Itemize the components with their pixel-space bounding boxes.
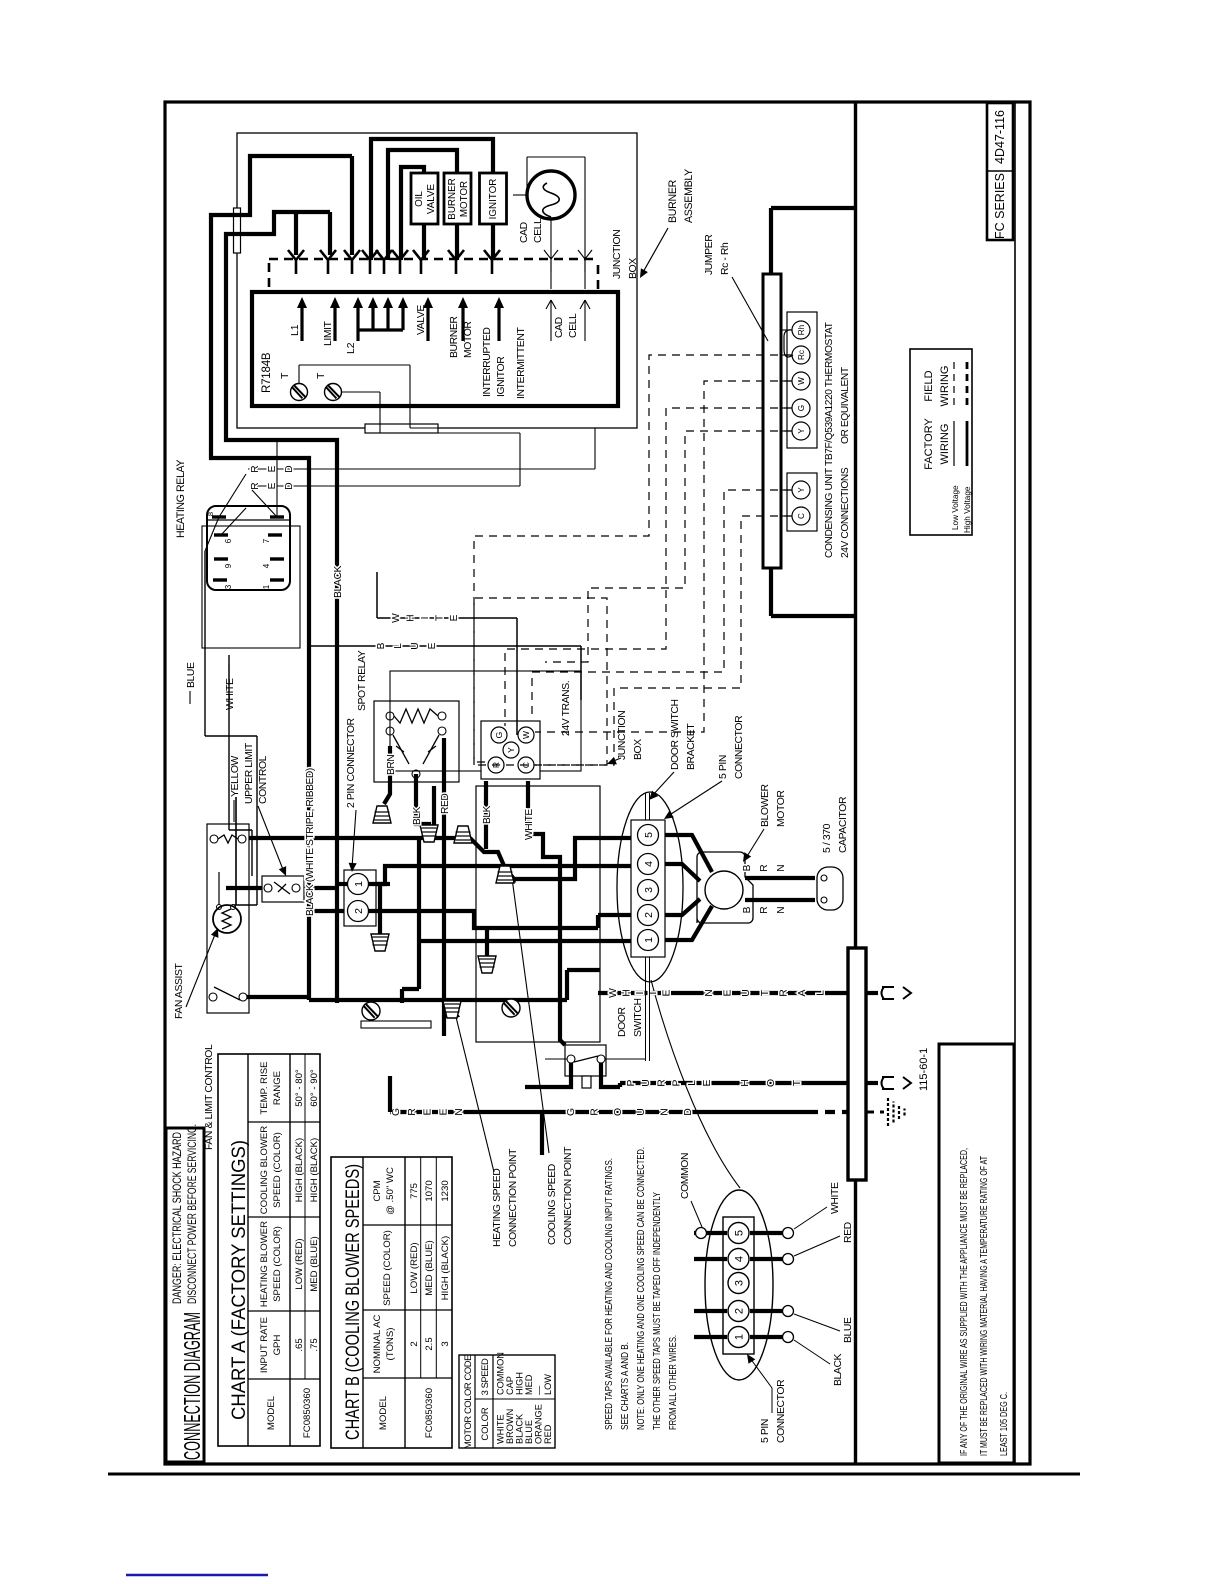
R7184B primary control box bbox=[252, 292, 618, 406]
svg-text:L: L bbox=[687, 1080, 698, 1086]
fuse on burner box edge bbox=[234, 208, 241, 253]
field wiring dashed G bbox=[505, 408, 792, 726]
neutral spade terminal + arrow bbox=[882, 987, 895, 999]
pin1 feed wire bbox=[419, 939, 631, 943]
hot field terminal stub bbox=[866, 1081, 878, 1085]
green wire corner hook bbox=[388, 1076, 392, 1112]
svg-text:E: E bbox=[662, 989, 673, 996]
cable clamp junction box bottom bbox=[361, 1021, 431, 1028]
heating relay terminals bbox=[212, 515, 226, 518]
white wire to door switch bbox=[528, 781, 565, 1045]
svg-text:CAPACITOR: CAPACITOR bbox=[838, 796, 849, 853]
svg-text:E: E bbox=[267, 482, 278, 489]
svg-text:T: T bbox=[792, 1079, 803, 1086]
svg-text:BLUE: BLUE bbox=[524, 1420, 534, 1444]
svg-text:5: 5 bbox=[734, 1230, 746, 1236]
svg-text:High Voltage: High Voltage bbox=[963, 486, 972, 533]
big down wire nut bbox=[485, 928, 489, 957]
oil valve wiring bbox=[422, 224, 426, 260]
svg-text:CAP: CAP bbox=[505, 1376, 515, 1395]
svg-text:R: R bbox=[778, 989, 789, 997]
svg-text:CAD: CAD bbox=[519, 222, 530, 243]
svg-text:VALVE: VALVE bbox=[416, 305, 427, 335]
svg-text:R: R bbox=[759, 906, 770, 913]
2 pin wiring bbox=[337, 882, 347, 886]
svg-text:VALVE: VALVE bbox=[426, 183, 437, 214]
green wire junction stub bbox=[540, 1112, 544, 1155]
svg-text:R: R bbox=[656, 1079, 667, 1087]
svg-text:IGNITOR: IGNITOR bbox=[488, 179, 499, 220]
svg-text:L: L bbox=[816, 990, 827, 996]
svg-text:A: A bbox=[797, 989, 808, 996]
svg-text:OIL: OIL bbox=[414, 191, 425, 207]
svg-text:U: U bbox=[410, 642, 421, 649]
svg-text:BURNER: BURNER bbox=[667, 179, 679, 223]
svg-text:COMMON: COMMON bbox=[496, 1352, 506, 1395]
svg-text:TEMP. RISE: TEMP. RISE bbox=[259, 1061, 270, 1114]
wire nut heating tap bbox=[443, 1001, 461, 1018]
svg-text:.75: .75 bbox=[309, 1338, 320, 1351]
svg-text:@ .50" WC: @ .50" WC bbox=[385, 1167, 396, 1215]
leader cooling speed bbox=[512, 878, 549, 1153]
5 pin detail end circles bbox=[696, 1228, 707, 1239]
svg-text:3: 3 bbox=[643, 887, 655, 893]
svg-text:INTERRUPTED: INTERRUPTED bbox=[482, 328, 493, 398]
svg-text:COOLING BLOWER: COOLING BLOWER bbox=[259, 1126, 270, 1215]
svg-text:DANGER: ELECTRICAL SHOCK HAZAR: DANGER: ELECTRICAL SHOCK HAZARD bbox=[172, 1132, 184, 1304]
svg-text:D: D bbox=[284, 465, 295, 472]
blue wire relay to fan assist bbox=[205, 517, 219, 551]
24V transformer outer thin box bbox=[390, 671, 581, 771]
svg-text:9: 9 bbox=[224, 563, 233, 568]
valve terminal wiring bbox=[419, 258, 423, 262]
T-T screw terminals bbox=[291, 384, 308, 401]
svg-text:U: U bbox=[641, 1079, 652, 1087]
svg-text:LIMIT: LIMIT bbox=[323, 320, 334, 346]
condensing unit terminal box bbox=[787, 473, 817, 531]
svg-text:D: D bbox=[284, 482, 295, 489]
svg-text:O: O bbox=[613, 1108, 624, 1116]
svg-text:E: E bbox=[438, 1108, 449, 1115]
svg-text:G: G bbox=[391, 1108, 402, 1116]
svg-text:24V TRANS.: 24V TRANS. bbox=[561, 681, 572, 736]
svg-text:UPPER LIMIT: UPPER LIMIT bbox=[244, 742, 255, 804]
svg-text:FAN & LIMIT CONTROL: FAN & LIMIT CONTROL bbox=[204, 1044, 215, 1150]
burner wiring bundle bbox=[211, 156, 352, 1000]
fan switch wires bbox=[247, 995, 309, 999]
heating relay rounded box bbox=[207, 506, 290, 590]
svg-text:4D47-116: 4D47-116 bbox=[993, 110, 1007, 164]
svg-text:CONTROL: CONTROL bbox=[258, 755, 269, 804]
field wiring dashed Rc bbox=[474, 355, 792, 762]
svg-text:3: 3 bbox=[440, 1341, 451, 1346]
svg-text:RED: RED bbox=[440, 794, 451, 814]
spot relay box bbox=[374, 701, 459, 782]
svg-text:CONDENSING UNIT: CONDENSING UNIT bbox=[824, 468, 835, 558]
ignitor wiring bbox=[491, 224, 495, 260]
svg-text:Low Voltage: Low Voltage bbox=[951, 485, 960, 530]
oil valve box bbox=[411, 173, 438, 224]
svg-text:COLOR: COLOR bbox=[479, 1407, 490, 1441]
svg-text:Y: Y bbox=[797, 487, 806, 493]
svg-text:G: G bbox=[566, 1108, 577, 1116]
svg-text:B: B bbox=[742, 906, 753, 913]
svg-text:N: N bbox=[454, 1108, 465, 1116]
svg-text:5 PIN: 5 PIN bbox=[760, 1419, 771, 1443]
svg-text:HEATING RELAY: HEATING RELAY bbox=[175, 460, 187, 538]
svg-text:U: U bbox=[741, 989, 752, 997]
svg-text:W: W bbox=[797, 377, 806, 385]
door thick wiring bbox=[525, 1063, 571, 1087]
burner motor box bbox=[444, 173, 471, 224]
svg-text:Rc: Rc bbox=[797, 350, 806, 360]
svg-text:CHART B (COOLING BLOWER SPEEDS: CHART B (COOLING BLOWER SPEEDS) bbox=[343, 1164, 364, 1440]
T-T wires to heating relay bbox=[298, 365, 300, 384]
svg-text:FC0850360: FC0850360 bbox=[302, 1388, 313, 1438]
svg-text:BROWN: BROWN bbox=[505, 1409, 515, 1444]
svg-text:H: H bbox=[740, 1079, 751, 1087]
svg-text:INTERMITTENT: INTERMITTENT bbox=[516, 327, 527, 399]
svg-text:5 PIN: 5 PIN bbox=[718, 755, 729, 779]
svg-text:E: E bbox=[702, 1079, 713, 1086]
svg-text:WHITE: WHITE bbox=[830, 1182, 841, 1214]
svg-text:Y: Y bbox=[797, 428, 806, 434]
svg-text:FACTORY: FACTORY bbox=[923, 418, 935, 470]
blower motor bbox=[697, 852, 753, 923]
svg-text:FC0850360: FC0850360 bbox=[424, 1388, 435, 1438]
svg-text:I: I bbox=[420, 617, 431, 620]
svg-text:SPOT RELAY: SPOT RELAY bbox=[357, 650, 368, 711]
svg-text:1: 1 bbox=[643, 937, 655, 943]
svg-text:Rc - Rh: Rc - Rh bbox=[720, 242, 731, 275]
svg-text:R: R bbox=[250, 465, 261, 472]
ignitor box bbox=[480, 173, 507, 224]
svg-text:2 PIN CONNECTOR: 2 PIN CONNECTOR bbox=[346, 717, 357, 808]
cad cell thin wires bbox=[550, 219, 552, 289]
limit switch bbox=[210, 835, 218, 843]
svg-text:IT MUST BE REPLACED WITH WIRIN: IT MUST BE REPLACED WITH WIRING MATERIAL… bbox=[978, 1156, 990, 1456]
svg-text:MED (BLUE): MED (BLUE) bbox=[309, 1236, 320, 1291]
svg-text:E: E bbox=[427, 642, 438, 649]
svg-text:CHART A (FACTORY SETTINGS): CHART A (FACTORY SETTINGS) bbox=[229, 1140, 250, 1420]
svg-text:SWITCH: SWITCH bbox=[633, 998, 644, 1037]
svg-text:2: 2 bbox=[409, 1341, 420, 1346]
svg-text:B: B bbox=[742, 864, 753, 871]
cad cell circle bbox=[527, 171, 575, 219]
speed tap wires pin2 bbox=[598, 913, 631, 917]
svg-text:CONNECTION DIAGRAM: CONNECTION DIAGRAM bbox=[179, 1312, 205, 1460]
svg-text:CAD: CAD bbox=[554, 317, 565, 338]
title strip CONNECTION DIAGRAM bbox=[166, 1128, 204, 1462]
svg-text:1: 1 bbox=[353, 881, 365, 887]
legend low-voltage field dashed line bbox=[953, 360, 955, 405]
svg-text:DOOR: DOOR bbox=[617, 1007, 628, 1037]
24V transformer terminal box bbox=[481, 721, 540, 779]
svg-text:E: E bbox=[267, 465, 278, 472]
svg-text:E: E bbox=[723, 989, 734, 996]
5 pin connector detail body bbox=[723, 1217, 754, 1354]
svg-text:3: 3 bbox=[224, 584, 233, 589]
svg-text:BLACK: BLACK bbox=[333, 565, 344, 598]
svg-text:—: — bbox=[534, 1385, 544, 1395]
svg-text:FC SERIES: FC SERIES bbox=[993, 173, 1007, 239]
svg-text:IF ANY OF THE ORIGINAL WIRE AS: IF ANY OF THE ORIGINAL WIRE AS SUPPLIED … bbox=[958, 1148, 970, 1456]
svg-text:INPUT RATE: INPUT RATE bbox=[259, 1317, 270, 1373]
svg-text:SEE CHARTS A AND B.: SEE CHARTS A AND B. bbox=[619, 1342, 631, 1430]
hot wire upper connection bbox=[618, 1083, 622, 1087]
relay wire to black bbox=[276, 440, 278, 517]
R7184B terminal chevrons (junction side) bbox=[288, 250, 296, 260]
svg-text:BLUE: BLUE bbox=[186, 662, 197, 688]
heating relay internal diagonals bbox=[219, 474, 246, 517]
svg-text:7: 7 bbox=[262, 538, 271, 543]
burner motor wiring bbox=[455, 224, 459, 260]
thermostat mounting bar bbox=[763, 274, 781, 568]
svg-text:WHITE: WHITE bbox=[524, 809, 535, 840]
hot wire purple bbox=[620, 1081, 848, 1085]
svg-text:JUNCTION: JUNCTION bbox=[612, 230, 623, 279]
svg-text:1: 1 bbox=[262, 584, 271, 589]
neutral field terminal stub bbox=[866, 991, 878, 995]
2pin circle1 to pin4 feed bbox=[376, 882, 390, 886]
svg-text:MOTOR COLOR CODE: MOTOR COLOR CODE bbox=[462, 1355, 473, 1449]
svg-text:BLACK (WHITE STRIPE, RIBBED): BLACK (WHITE STRIPE, RIBBED) bbox=[305, 768, 316, 916]
upper limit control box bbox=[262, 876, 304, 902]
svg-text:H: H bbox=[406, 614, 417, 621]
run capacitor 5/370 bbox=[817, 867, 843, 910]
svg-text:HIGH: HIGH bbox=[515, 1372, 525, 1395]
black wire junction drops bbox=[309, 998, 567, 1002]
svg-text:BLOWER: BLOWER bbox=[760, 783, 771, 827]
wire white 24v bbox=[377, 617, 517, 619]
fan and limit control box bbox=[207, 824, 249, 1013]
junction box dashed outline (transformer) bbox=[474, 598, 607, 765]
field wiring dashed condensing Y bbox=[532, 490, 792, 716]
svg-text:YELLOW: YELLOW bbox=[230, 755, 241, 797]
svg-text:1070: 1070 bbox=[424, 1180, 435, 1201]
svg-text:T: T bbox=[315, 372, 327, 379]
cable clamp on burner box edge bbox=[365, 424, 438, 433]
thermostat terminal box bbox=[787, 312, 817, 448]
svg-text:RED: RED bbox=[843, 1222, 854, 1243]
svg-text:CONNECTION POINT: CONNECTION POINT bbox=[563, 1146, 574, 1245]
svg-text:LOW (RED): LOW (RED) bbox=[409, 1242, 420, 1293]
svg-text:H: H bbox=[621, 989, 632, 997]
title block FC SERIES / 4D47-116 bbox=[987, 103, 1013, 240]
leader heating speed bbox=[455, 1013, 494, 1172]
upper limit wiring bbox=[226, 886, 262, 890]
svg-text:CONNECTION POINT: CONNECTION POINT bbox=[508, 1148, 519, 1247]
svg-text:IGNITOR: IGNITOR bbox=[496, 356, 507, 397]
earth ground symbol bbox=[887, 1098, 889, 1126]
svg-text:U: U bbox=[636, 1108, 647, 1116]
svg-text:2: 2 bbox=[734, 1308, 746, 1314]
svg-text:WHITE: WHITE bbox=[496, 1414, 506, 1444]
svg-text:BLACK: BLACK bbox=[515, 1413, 525, 1444]
fan assist motor bbox=[213, 905, 241, 933]
svg-text:HIGH (BLACK): HIGH (BLACK) bbox=[440, 1236, 451, 1301]
svg-text:5 / 370: 5 / 370 bbox=[822, 823, 833, 853]
svg-text:2: 2 bbox=[643, 912, 655, 918]
svg-text:G: G bbox=[797, 405, 806, 411]
R7184B terminal arrows (inside) bbox=[300, 305, 303, 341]
MOTOR COLOR CODE table bbox=[459, 1355, 555, 1448]
svg-text:WIRING: WIRING bbox=[939, 424, 951, 465]
svg-text:BLACK: BLACK bbox=[833, 1353, 844, 1386]
blower wiring from pins bbox=[665, 835, 712, 872]
CHART B table bbox=[331, 1157, 452, 1448]
svg-text:RANGE: RANGE bbox=[272, 1071, 283, 1105]
svg-text:.65: .65 bbox=[294, 1338, 305, 1351]
svg-text:LEAST 105 DEG C.: LEAST 105 DEG C. bbox=[998, 1392, 1010, 1456]
svg-text:3 SPEED: 3 SPEED bbox=[479, 1358, 490, 1395]
svg-text:CONNECTOR: CONNECTOR bbox=[734, 715, 745, 779]
svg-text:N: N bbox=[776, 906, 787, 913]
svg-text:O: O bbox=[766, 1079, 777, 1087]
svg-text:CELL: CELL bbox=[568, 313, 579, 338]
svg-text:8: 8 bbox=[206, 512, 215, 516]
svg-text:NOMINAL AC: NOMINAL AC bbox=[372, 1315, 383, 1374]
svg-text:L1: L1 bbox=[290, 324, 301, 336]
svg-text:MOTOR: MOTOR bbox=[776, 790, 787, 827]
inner border line bbox=[1014, 102, 1016, 1464]
svg-text:C: C bbox=[797, 513, 806, 519]
svg-text:OR EQUIVALENT: OR EQUIVALENT bbox=[840, 367, 851, 444]
white wire relay to upper limit bbox=[228, 655, 230, 830]
svg-text:I: I bbox=[635, 992, 646, 995]
heating relay cap line bbox=[207, 519, 290, 521]
svg-text:5: 5 bbox=[643, 832, 655, 838]
thick loop to divider bbox=[769, 208, 773, 616]
junction box dashed boundary (burner) bbox=[269, 258, 598, 261]
door switch wires bbox=[545, 1058, 567, 1060]
warning note box bbox=[939, 1044, 1014, 1463]
speed tap bus heating bbox=[249, 836, 470, 840]
svg-text:1230: 1230 bbox=[440, 1180, 451, 1201]
svg-text:ASSEMBLY: ASSEMBLY bbox=[683, 169, 695, 223]
svg-text:BRN: BRN bbox=[386, 755, 397, 775]
svg-text:1: 1 bbox=[734, 1334, 746, 1340]
svg-text:CPM: CPM bbox=[372, 1180, 383, 1201]
screw connection points bbox=[362, 1002, 380, 1020]
field wiring dashed Y bbox=[545, 431, 792, 662]
svg-text:E: E bbox=[449, 614, 460, 621]
svg-text:FROM ALL OTHER WIRES.: FROM ALL OTHER WIRES. bbox=[667, 1335, 679, 1430]
svg-text:G: G bbox=[494, 732, 504, 739]
tap stub with down nut below circle 1 bbox=[378, 884, 382, 938]
svg-text:CELL: CELL bbox=[533, 218, 544, 243]
svg-text:BOX: BOX bbox=[628, 258, 639, 279]
power terminal bar bbox=[848, 948, 866, 1180]
svg-text:BLK: BLK bbox=[482, 805, 493, 824]
svg-text:P: P bbox=[672, 1079, 683, 1086]
svg-text:BRACKET: BRACKET bbox=[686, 723, 697, 770]
svg-text:BLK: BLK bbox=[412, 806, 423, 825]
field wiring dashed condensing C bbox=[535, 516, 792, 765]
svg-text:W: W bbox=[521, 731, 531, 739]
2 pin connector box bbox=[344, 870, 376, 926]
svg-text:MODEL: MODEL bbox=[266, 1395, 277, 1430]
svg-text:ORANGE: ORANGE bbox=[534, 1404, 544, 1444]
svg-text:2.5: 2.5 bbox=[424, 1337, 435, 1350]
svg-text:Y: Y bbox=[506, 747, 516, 753]
svg-text:R: R bbox=[250, 482, 261, 489]
leader curve from main connector to detail bbox=[651, 980, 740, 1188]
svg-text:60° - 90°: 60° - 90° bbox=[309, 1069, 320, 1107]
horizontal rule below drawing (portrait bottom) bbox=[108, 1473, 1080, 1476]
door switch bbox=[565, 1045, 606, 1076]
svg-text:24V CONNECTIONS: 24V CONNECTIONS bbox=[840, 467, 851, 558]
jumper wire bbox=[784, 330, 793, 357]
neutral wire white bbox=[598, 991, 848, 995]
svg-text:BURNER: BURNER bbox=[447, 178, 458, 219]
svg-text:RED: RED bbox=[543, 1424, 553, 1444]
svg-text:FIELD: FIELD bbox=[923, 370, 935, 401]
door switch bracket rails bbox=[645, 957, 647, 1061]
svg-text:COMMON: COMMON bbox=[680, 1153, 691, 1199]
field wiring dashed W bbox=[535, 381, 792, 732]
junction box pass-through wire bbox=[432, 786, 436, 838]
svg-text:N: N bbox=[660, 1108, 671, 1116]
svg-text:N: N bbox=[704, 989, 715, 997]
svg-text:JUNCTION: JUNCTION bbox=[617, 711, 628, 760]
svg-text:E: E bbox=[423, 1108, 434, 1115]
svg-text:HEATING SPEED: HEATING SPEED bbox=[492, 1169, 503, 1247]
svg-text:D: D bbox=[683, 1108, 694, 1116]
wire blue 24v bbox=[310, 645, 581, 647]
main divider line bbox=[854, 1180, 857, 1464]
svg-text:4: 4 bbox=[262, 563, 271, 568]
svg-text:MED (BLUE): MED (BLUE) bbox=[424, 1240, 435, 1295]
svg-text:W: W bbox=[608, 988, 619, 998]
svg-text:L: L bbox=[393, 643, 404, 649]
main 5 pin connector body bbox=[631, 820, 665, 957]
legend low-voltage factory line bbox=[953, 421, 955, 466]
svg-text:LOW: LOW bbox=[543, 1374, 553, 1395]
svg-text:SPEED (COLOR): SPEED (COLOR) bbox=[382, 1230, 393, 1306]
svg-text:MED: MED bbox=[524, 1374, 534, 1395]
svg-text:R: R bbox=[407, 1108, 418, 1116]
svg-text:DISCONNECT POWER BEFORE SERVIC: DISCONNECT POWER BEFORE SERVICING. bbox=[187, 1124, 199, 1304]
svg-text:R: R bbox=[759, 864, 770, 871]
svg-text:LOW (RED): LOW (RED) bbox=[294, 1238, 305, 1289]
door switch plunger bbox=[582, 1076, 591, 1088]
svg-text:4: 4 bbox=[643, 861, 655, 867]
svg-text:B: B bbox=[376, 642, 387, 649]
svg-text:BOX: BOX bbox=[633, 739, 644, 760]
legend high-voltage field dashed line bbox=[966, 360, 969, 405]
svg-text:GPH: GPH bbox=[272, 1335, 283, 1356]
5 pin connector detail ellipse bbox=[705, 1190, 773, 1380]
ground field stub dashed bbox=[866, 1111, 884, 1114]
svg-text:BLUE: BLUE bbox=[843, 1317, 854, 1343]
svg-text:BURNER: BURNER bbox=[449, 316, 460, 358]
svg-text:THE OTHER SPEED TAPS MUST BE T: THE OTHER SPEED TAPS MUST BE TAPED OFF I… bbox=[651, 1192, 663, 1430]
blue underline mark bbox=[126, 1574, 268, 1576]
main 5 pin connector ellipse bbox=[617, 792, 683, 982]
svg-text:SPEED (COLOR): SPEED (COLOR) bbox=[272, 1226, 283, 1302]
svg-text:T: T bbox=[435, 615, 446, 621]
hot spade terminal + arrow bbox=[882, 1077, 895, 1089]
svg-text:FAN ASSIST: FAN ASSIST bbox=[174, 962, 185, 1019]
yellow wire bbox=[235, 797, 237, 905]
legend box factory/field wiring bbox=[910, 349, 972, 535]
svg-text:N: N bbox=[776, 864, 787, 871]
svg-text:WHITE: WHITE bbox=[225, 678, 236, 710]
spot relay contacts bbox=[386, 727, 394, 735]
heating relay outer thin box bbox=[202, 526, 300, 648]
svg-text:SPEED TAPS AVAILABLE FOR HEATI: SPEED TAPS AVAILABLE FOR HEATING AND COO… bbox=[603, 1158, 615, 1430]
